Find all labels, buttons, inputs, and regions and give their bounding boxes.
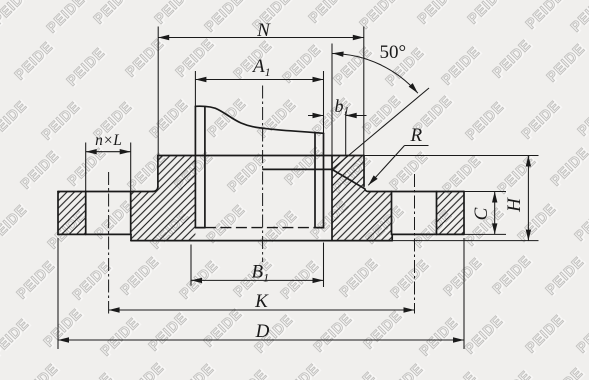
flange left edge [57,192,59,235]
socket shoulder line [263,168,332,170]
socket bore wall right [331,156,333,241]
arrow nxL left [86,149,97,154]
b1 extension line [345,112,347,155]
svg-text:R: R [410,125,423,146]
svg-text:K: K [254,291,269,312]
K dimension line [109,309,415,311]
arrow B1 right [313,278,324,283]
arrow angle arc top [332,51,343,57]
arrow nxL right [120,149,131,154]
arrow K left [109,307,120,312]
hub left edge [157,156,159,187]
dimension thin lines [58,27,539,350]
step right [391,234,393,240]
arrow D left [58,337,69,342]
arrow A1 right [313,77,324,82]
arrow A1 left [195,77,206,82]
arrow b1 left [313,113,324,118]
B1 dimension line [191,279,324,281]
arrow R leader [366,175,377,187]
pipe outer wall right [323,133,325,227]
R leader shoulder [405,145,429,147]
C dimension line [494,192,496,235]
flange top right [369,191,465,193]
pipe end right [315,227,324,229]
protrusion bottom [131,240,392,242]
flange bottom left [58,233,131,235]
50 deg arc reference extension [331,44,333,156]
arrowheads [58,35,531,343]
svg-text:n×L: n×L [95,132,122,149]
svg-text:H: H [504,197,525,213]
svg-text:C: C [471,207,492,220]
flange right edge [463,192,465,235]
R leader [368,146,404,186]
bolt hole right walls [392,192,437,235]
A1 extension lines [195,71,323,133]
svg-text:50°: 50° [380,42,407,63]
50 deg arc [333,54,418,94]
H dimension line [527,156,529,241]
hub base fillet left [153,187,158,192]
step left [130,234,132,240]
pipe end left [195,227,205,229]
flange bottom right [392,233,464,235]
hatching: right inner flange + hub + weld section [332,156,392,241]
pipe inner wall left [204,107,206,227]
hatching: left outer flange section [58,192,86,235]
arrow angle arc bottom [409,83,420,95]
arrow b1 right [346,113,357,118]
flange top left [58,191,153,193]
arrow C bottom [492,223,497,234]
svg-text:D: D [255,321,270,342]
pipe inner wall right [314,132,316,227]
centerline flange axis [262,86,264,263]
A1 dimension line [195,79,323,81]
hub top extension for H [364,155,539,157]
bolt hole left walls [86,192,131,235]
arrow N left [158,35,169,40]
arrow B1 left [191,278,202,283]
flange top extension for C [464,191,506,193]
hatching: right outer flange section [437,192,465,235]
flange bottom extension for C [464,233,506,235]
hub right edge [363,156,365,187]
D extension lines [58,238,464,349]
part outline [58,106,464,240]
b1 dimension lines [308,115,367,117]
pipe outer wall left [194,106,196,227]
arrow N right [353,35,364,40]
hidden socket bottom dashed line [205,227,315,229]
arrow C top [492,192,497,203]
50 deg angle line [332,88,429,169]
nxL dimension line [86,151,131,153]
D dimension line [58,339,464,341]
N extension lines [158,27,364,156]
arrow K right [404,307,415,312]
arrow H top [526,156,531,167]
B1 extension lines [191,243,324,288]
centerline left bolt hole [108,172,110,314]
weld groove face + fillet [332,169,369,191]
svg-text:N: N [256,20,271,41]
protrusion bottom extension for H [392,240,538,242]
hub top [158,155,364,157]
arrow H bottom [526,230,531,241]
N dimension line [158,37,364,39]
pipe taper S-curve [195,106,323,133]
centerline right bolt hole [414,174,416,314]
hatching: left inner flange + hub section [131,156,196,241]
arrow D right [453,337,464,342]
nxL extension lines [86,143,131,192]
